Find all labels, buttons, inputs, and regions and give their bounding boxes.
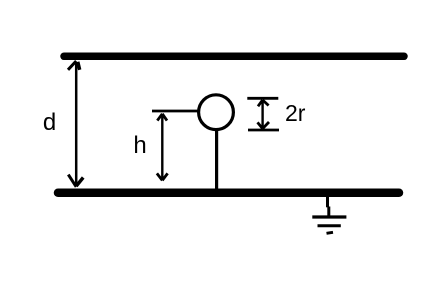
dimension 2r (I-beam with arrows): [247, 98, 279, 130]
svg-text:2r: 2r: [285, 100, 306, 126]
dimension arrow d (vertical, double-headed): [68, 61, 83, 187]
ground symbol: [312, 196, 346, 233]
bottom ground plate: [58, 188, 399, 197]
wire from circle to ground plate: [215, 130, 218, 189]
top conductor plate: [64, 53, 404, 61]
wire stub left of circle: [152, 110, 200, 113]
svg-text:h: h: [133, 132, 146, 159]
conductor cross-section circle: [199, 95, 234, 130]
svg-text:d: d: [43, 109, 56, 136]
dimension arrow h (vertical, double-headed): [157, 114, 168, 181]
